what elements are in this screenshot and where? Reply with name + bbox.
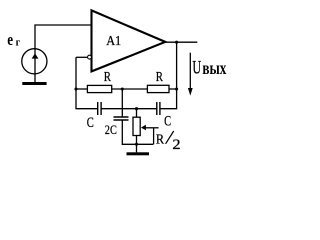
wire: left rail down to capacitor row — [76, 57, 98, 108]
svg-text:U: U — [192, 58, 201, 79]
wire: 2C branch from R-R midpoint down across C row — [121, 89, 123, 117]
wire: output rail down to capacitor row — [160, 42, 177, 109]
wire: bottom node to ground — [136, 144, 138, 152]
svg-text:2: 2 — [172, 137, 180, 153]
wire: source top lead up and right to op-amp + input — [35, 25, 91, 82]
svg-text:R: R — [156, 70, 164, 85]
wire: capacitor row middle segment — [101, 108, 157, 110]
node: output junction — [175, 41, 178, 44]
ground under R/2 — [127, 152, 150, 155]
capacitor C (right) plates — [157, 102, 160, 115]
svg-text:г: г — [16, 36, 21, 48]
arrowhead inside source pointing up — [32, 53, 39, 58]
op-amp A1 triangle — [92, 10, 166, 71]
wire: inverting input lead from left rail — [76, 56, 87, 58]
resistor R (right) — [147, 85, 169, 92]
svg-text:e: e — [7, 30, 13, 49]
wire: op-amp output — [166, 41, 198, 43]
node: left rail / R row junction — [74, 87, 77, 90]
output arrow U_out — [189, 53, 191, 89]
node: R-R midpoint — [121, 87, 124, 90]
capacitor C (left) plates — [98, 102, 101, 115]
svg-text:A1: A1 — [106, 33, 121, 48]
resistor R (left) — [87, 85, 111, 92]
node: bottom rail junction — [135, 143, 138, 146]
wire: between R1 and R2 — [112, 88, 148, 90]
node: output rail / R row junction — [175, 87, 178, 90]
svg-text:2C: 2C — [105, 122, 117, 137]
wire: C-C midpoint down to R/2 — [136, 109, 138, 118]
capacitor 2C plates — [114, 117, 129, 120]
svg-text:вых: вых — [202, 58, 226, 78]
svg-text:C: C — [164, 114, 171, 130]
inversion bubble on inverting input — [88, 55, 92, 59]
wire: R2 to output rail — [169, 88, 177, 90]
wire: wiper arrow lead down to bottom rail — [153, 128, 155, 145]
wire: R/2 bottom lead — [136, 135, 138, 144]
ground under source — [22, 82, 46, 85]
svg-text:C: C — [87, 115, 94, 131]
svg-text:R: R — [104, 70, 112, 85]
voltage source e_g circle — [22, 49, 47, 74]
resistor R/2 (vertical) — [133, 117, 140, 135]
wire: left rail to resistor R1 — [76, 88, 87, 90]
wire: 2C bottom lead down and right along bottom rail — [122, 120, 153, 144]
node: C-C midpoint / R half top — [135, 107, 138, 110]
wiper arrow of R/2 — [145, 127, 158, 129]
svg-text:R: R — [156, 132, 165, 147]
